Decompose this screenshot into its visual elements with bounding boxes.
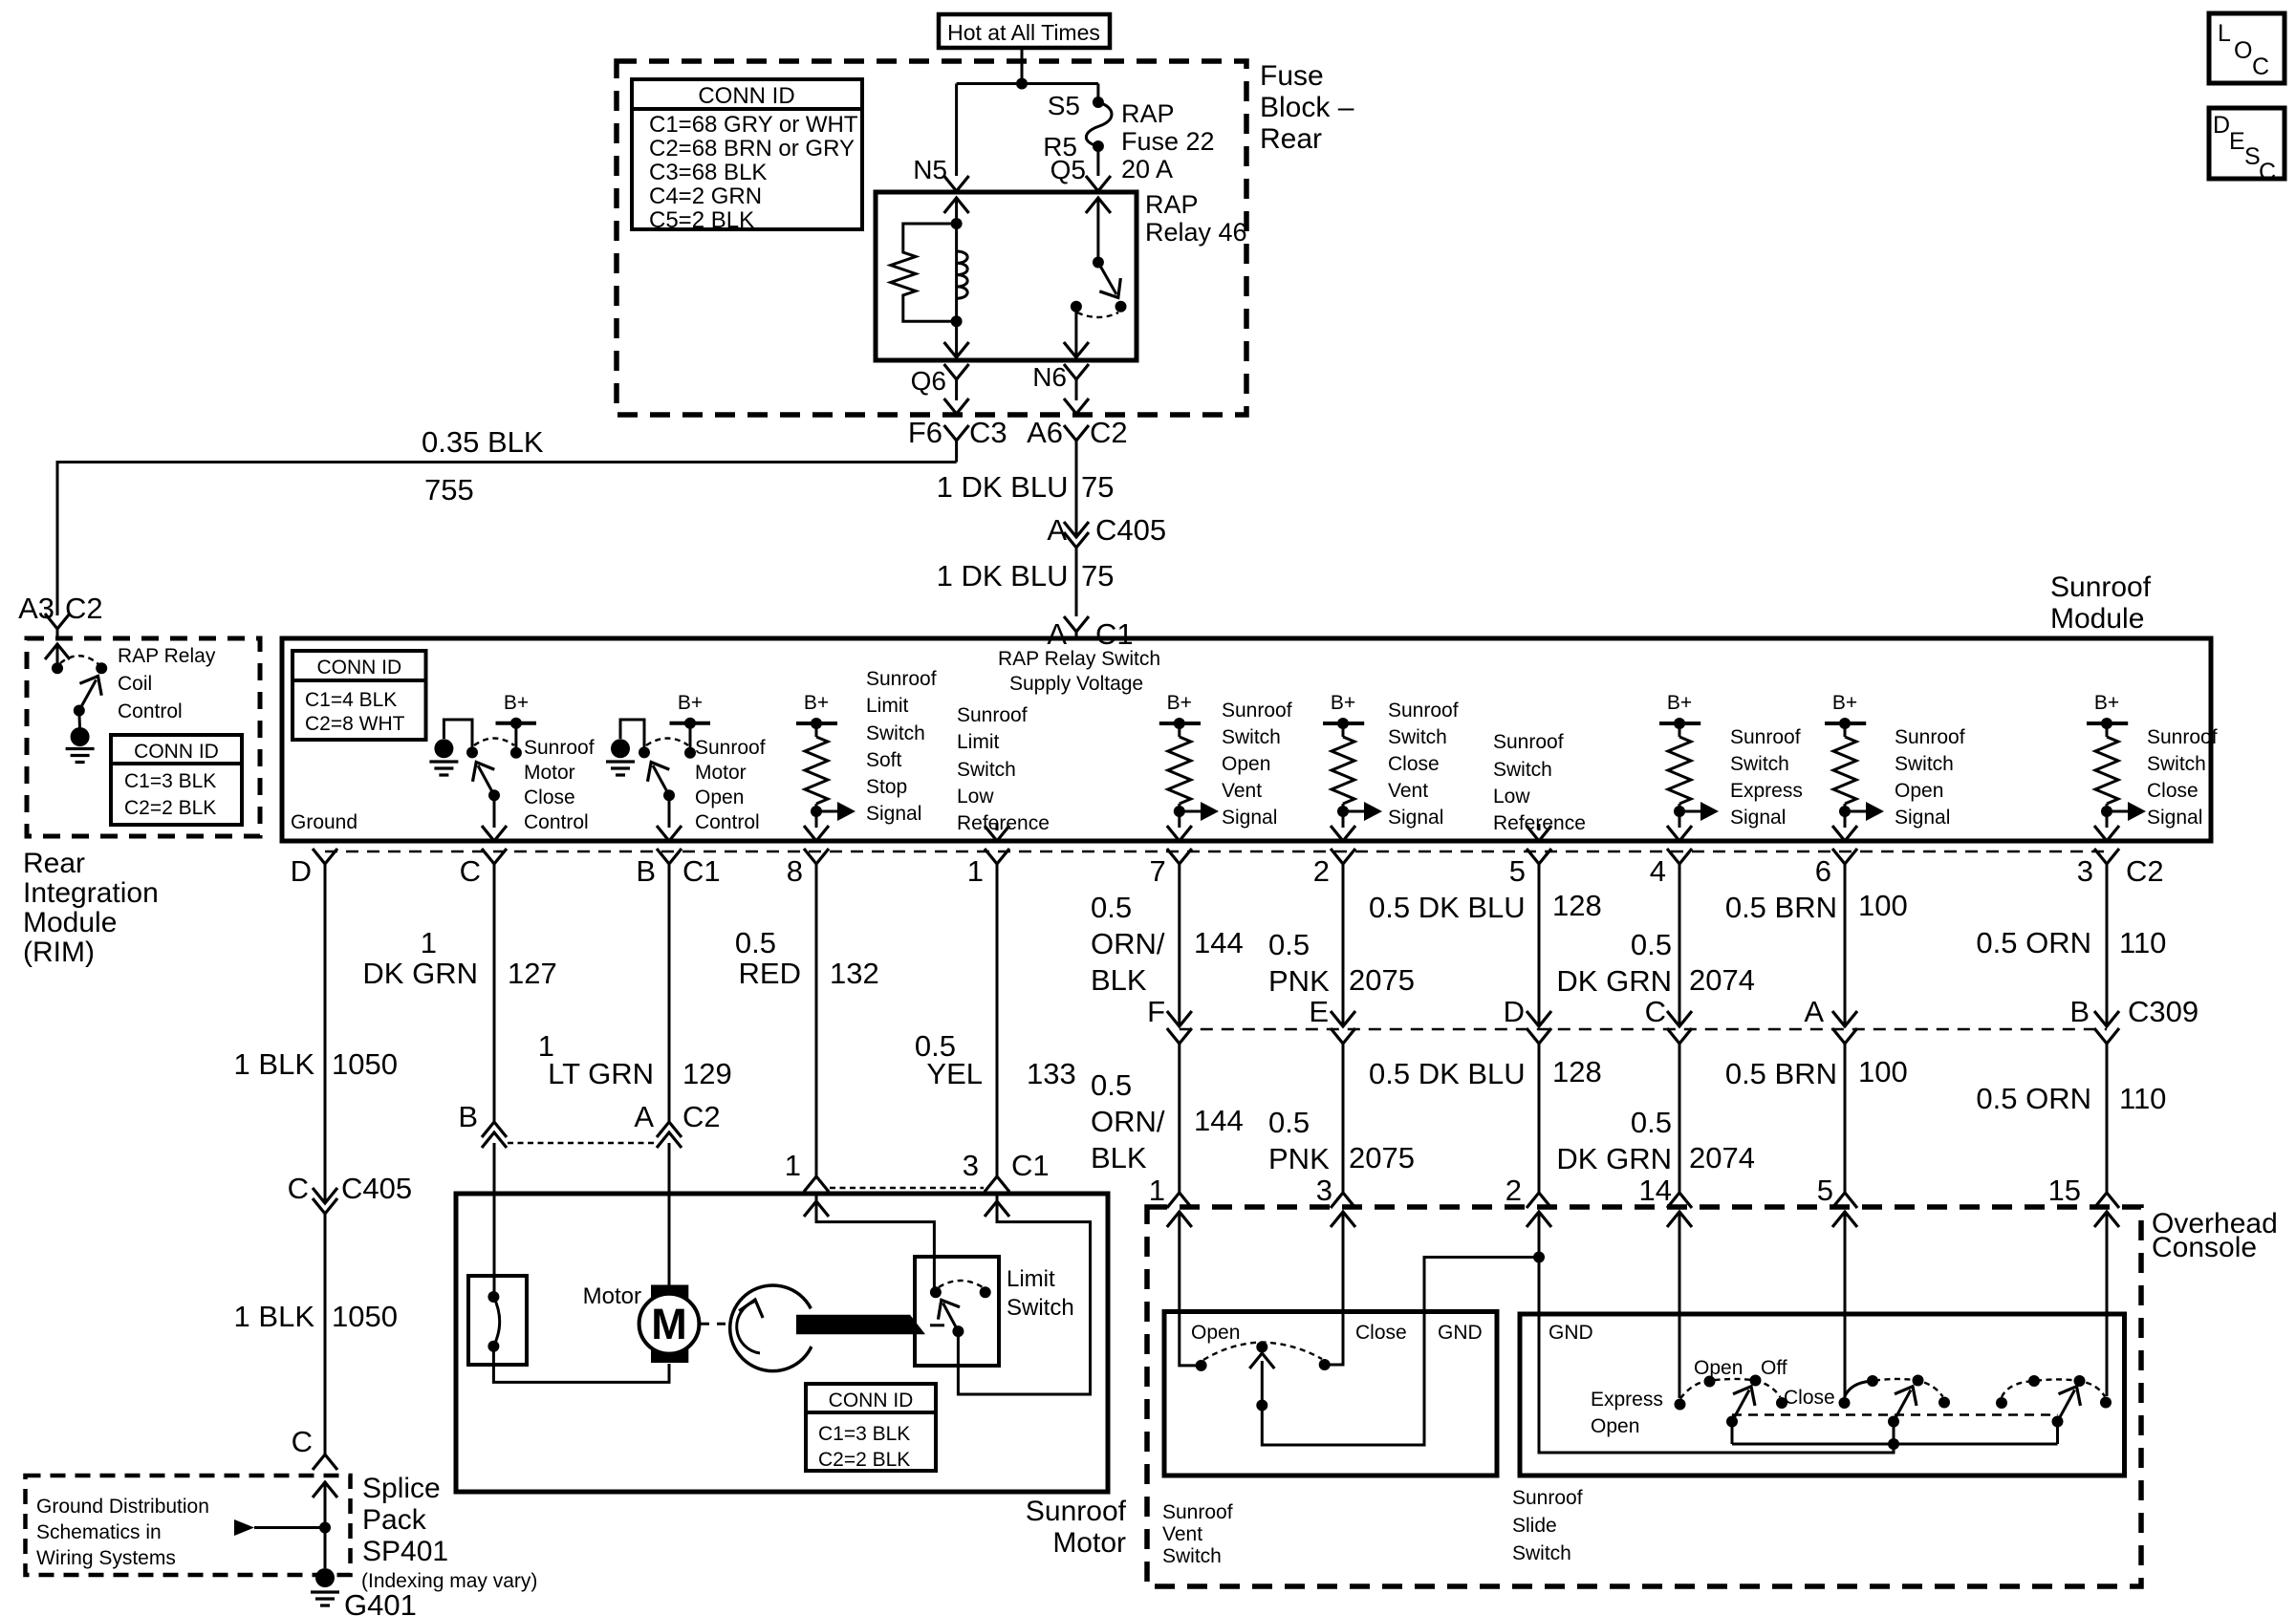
svg-text:6: 6 bbox=[1815, 854, 1831, 888]
svg-text:128: 128 bbox=[1552, 889, 1602, 922]
DESC reference box bbox=[2209, 108, 2285, 185]
motor shaft dashes bbox=[701, 1323, 728, 1325]
svg-text:Sunroof: Sunroof bbox=[866, 668, 937, 690]
brush contacts and arc bbox=[487, 1291, 499, 1352]
svg-text:0.35 BLK: 0.35 BLK bbox=[422, 425, 544, 459]
wire 8 0.5 RED 132 bbox=[735, 864, 879, 1176]
switch close pull-up resistor R3 bbox=[2087, 692, 2146, 841]
dashed throw arc bbox=[646, 739, 688, 746]
svg-text:DK GRN: DK GRN bbox=[1556, 964, 1672, 998]
RAP Relay 46 label bbox=[1145, 190, 1247, 247]
wire 2 0.5 PNK 2075 upper bbox=[1268, 864, 1415, 1026]
connector A6 C2 bbox=[1027, 416, 1128, 449]
relay switch common entry bbox=[1086, 198, 1111, 263]
svg-text:20 A: 20 A bbox=[1121, 155, 1173, 183]
vent close contact bbox=[1319, 1359, 1331, 1370]
svg-text:C3=68 BLK: C3=68 BLK bbox=[649, 160, 767, 185]
svg-text:8: 8 bbox=[787, 854, 803, 888]
limit switch low reference stub pin 1 bbox=[985, 824, 1009, 841]
svg-text:1: 1 bbox=[1149, 1174, 1165, 1207]
svg-text:Close: Close bbox=[2147, 780, 2199, 802]
svg-text:(RIM): (RIM) bbox=[23, 937, 95, 968]
wire 1 DK BLU 75 lower bbox=[937, 559, 1115, 593]
ground distribution reference arrow bbox=[234, 1519, 325, 1536]
svg-text:Open: Open bbox=[1895, 780, 1943, 802]
svg-text:755: 755 bbox=[424, 473, 474, 506]
svg-text:C2: C2 bbox=[65, 592, 103, 625]
slide set2 contacts bbox=[1867, 1375, 1950, 1409]
console pin 15 bbox=[2048, 1174, 2119, 1208]
svg-text:0.5: 0.5 bbox=[1631, 928, 1672, 961]
wire 0.35 BLK 755 bbox=[57, 425, 957, 615]
junction node on pin 2 wire bbox=[1533, 1252, 1545, 1263]
svg-text:Rear: Rear bbox=[23, 848, 85, 879]
motor brush box bbox=[468, 1276, 527, 1365]
svg-text:B+: B+ bbox=[2094, 692, 2119, 714]
svg-text:C1=4 BLK: C1=4 BLK bbox=[305, 689, 397, 711]
svg-text:127: 127 bbox=[508, 957, 557, 990]
svg-text:128: 128 bbox=[1552, 1055, 1602, 1088]
slide set2 left contact bbox=[1839, 1397, 1851, 1409]
pin 4 bbox=[1650, 849, 1692, 888]
svg-text:Off: Off bbox=[1761, 1357, 1787, 1379]
in-line connector A C405 bbox=[1047, 513, 1166, 616]
svg-text:RED: RED bbox=[739, 957, 801, 990]
pin 6 bbox=[1815, 849, 1857, 888]
svg-text:C2: C2 bbox=[1090, 416, 1128, 449]
svg-text:Switch: Switch bbox=[1388, 726, 1447, 748]
slide set1 dashed throw arc bbox=[1680, 1379, 1781, 1399]
switch low reference stub pin 5 bbox=[1527, 824, 1551, 841]
svg-text:7: 7 bbox=[1150, 854, 1166, 888]
Sunroof Module label bbox=[2050, 571, 2152, 635]
svg-text:Open: Open bbox=[1694, 1357, 1743, 1379]
svg-text:Signal: Signal bbox=[2147, 807, 2202, 829]
switch close vent pull-up resistor R2 bbox=[1323, 692, 1382, 841]
dashed throw arc bbox=[474, 739, 514, 746]
svg-text:LT GRN: LT GRN bbox=[548, 1057, 654, 1090]
svg-text:2075: 2075 bbox=[1349, 963, 1415, 997]
wire C 1 DK GRN 127 bbox=[362, 864, 556, 1194]
svg-text:Open: Open bbox=[695, 786, 744, 808]
wire 5 0.5 DK BLU 128 upper bbox=[1369, 864, 1602, 1026]
RIM ground bbox=[66, 711, 95, 763]
svg-text:D: D bbox=[1504, 995, 1525, 1028]
Sunroof Motor box bbox=[456, 1194, 1108, 1492]
Rear Integration Module dashed box bbox=[27, 638, 260, 836]
motor M bbox=[639, 1194, 700, 1363]
wire D ground 1 BLK 1050 bbox=[234, 864, 398, 1203]
sunroof limit switch soft stop signal label bbox=[866, 668, 937, 825]
svg-text:M: M bbox=[651, 1300, 687, 1348]
svg-text:B+: B+ bbox=[1667, 692, 1692, 714]
svg-text:100: 100 bbox=[1858, 889, 1908, 922]
svg-text:E: E bbox=[2229, 128, 2245, 155]
console pin 14 bbox=[1639, 1174, 1692, 1208]
switch arm bbox=[663, 789, 675, 801]
svg-text:C2=8 WHT: C2=8 WHT bbox=[305, 713, 405, 735]
svg-text:Sunroof: Sunroof bbox=[957, 704, 1028, 726]
ground G401 bbox=[311, 1568, 417, 1616]
svg-text:F6: F6 bbox=[908, 416, 942, 449]
Rear Integration Module (RIM) label bbox=[23, 848, 159, 968]
svg-text:1050: 1050 bbox=[332, 1047, 398, 1081]
B+ supply bbox=[496, 722, 537, 725]
CONN ID table (Sunroof Module) bbox=[292, 651, 426, 740]
relay coil output arrow bbox=[944, 321, 969, 357]
ground symbol bbox=[434, 739, 453, 758]
svg-text:1: 1 bbox=[421, 926, 437, 959]
svg-text:0.5 ORN: 0.5 ORN bbox=[1976, 926, 2091, 959]
svg-text:B+: B+ bbox=[504, 692, 529, 714]
svg-text:Signal: Signal bbox=[1730, 807, 1786, 829]
limit switch label bbox=[1007, 1266, 1074, 1321]
svg-text:GND: GND bbox=[1438, 1322, 1483, 1344]
svg-text:Q6: Q6 bbox=[911, 366, 946, 396]
svg-text:Open: Open bbox=[1191, 1322, 1240, 1344]
svg-text:B: B bbox=[636, 854, 656, 888]
svg-text:Signal: Signal bbox=[866, 803, 921, 825]
svg-text:RAP Relay: RAP Relay bbox=[118, 645, 216, 667]
pin 1 bbox=[967, 849, 1009, 888]
svg-text:C: C bbox=[460, 854, 481, 888]
svg-text:Slide: Slide bbox=[1512, 1515, 1557, 1537]
in-line connector B / A C2 bbox=[458, 1100, 720, 1148]
console pin 5 bbox=[1817, 1174, 1857, 1208]
B+ supply bbox=[670, 722, 711, 725]
svg-text:Signal: Signal bbox=[1222, 807, 1277, 829]
limit switch soft stop pull-up resistor R8 bbox=[796, 692, 856, 841]
svg-text:A: A bbox=[634, 1100, 654, 1133]
svg-text:ORN/: ORN/ bbox=[1091, 927, 1165, 960]
svg-text:BLK: BLK bbox=[1091, 963, 1147, 997]
vent GND rail to slide switch bbox=[1262, 1258, 1539, 1446]
svg-text:Limit: Limit bbox=[866, 695, 909, 717]
svg-text:0.5 DK BLU: 0.5 DK BLU bbox=[1369, 891, 1526, 924]
CONN ID table (Fuse Block) bbox=[632, 79, 862, 233]
relay coil inductor bbox=[957, 224, 968, 321]
svg-text:0.5 ORN: 0.5 ORN bbox=[1976, 1082, 2091, 1115]
svg-text:C2: C2 bbox=[682, 1100, 721, 1133]
in-line connector C309 row bbox=[1167, 1011, 2119, 1044]
svg-text:A6: A6 bbox=[1027, 416, 1063, 449]
svg-text:0.5: 0.5 bbox=[1268, 928, 1310, 961]
svg-text:Splice: Splice bbox=[362, 1473, 441, 1504]
svg-text:F: F bbox=[1147, 995, 1165, 1028]
vent open feed wire bbox=[1180, 1212, 1196, 1366]
vent switch arm bbox=[1249, 1353, 1274, 1411]
fuse name label bbox=[1121, 99, 1215, 183]
svg-text:1050: 1050 bbox=[332, 1300, 398, 1333]
svg-text:132: 132 bbox=[830, 957, 879, 990]
wire 0.5 PNK 2075 lower bbox=[1268, 1044, 1415, 1193]
slide set2 dashed throw arc bbox=[1874, 1379, 1943, 1397]
connector A3 C2 into RIM bbox=[18, 592, 103, 638]
fuse F22 RAP Fuse 22 20A bbox=[1086, 97, 1112, 176]
svg-text:Fuse: Fuse bbox=[1260, 60, 1324, 92]
svg-text:YEL: YEL bbox=[926, 1057, 983, 1090]
wire 0.5 DK BLU 128 lower bbox=[1369, 1044, 1602, 1193]
svg-text:C: C bbox=[288, 1172, 309, 1205]
svg-text:C1=3 BLK: C1=3 BLK bbox=[818, 1423, 910, 1445]
svg-text:75: 75 bbox=[1081, 470, 1114, 504]
pin 14 express feed bbox=[1679, 1212, 1681, 1398]
svg-text:GND: GND bbox=[1549, 1322, 1593, 1344]
svg-text:C: C bbox=[2259, 159, 2276, 185]
svg-text:SP401: SP401 bbox=[362, 1536, 448, 1567]
switch open pull-up resistor R6 bbox=[1825, 692, 1884, 841]
svg-text:4: 4 bbox=[1650, 854, 1666, 888]
svg-text:C5=2 BLK: C5=2 BLK bbox=[649, 207, 754, 233]
wire bbox=[444, 720, 472, 752]
svg-text:Control: Control bbox=[118, 700, 183, 722]
bar link dash bbox=[930, 1324, 944, 1326]
svg-text:Wiring Systems: Wiring Systems bbox=[36, 1547, 176, 1569]
svg-text:129: 129 bbox=[682, 1057, 732, 1090]
svg-text:3: 3 bbox=[963, 1149, 979, 1182]
svg-text:Switch: Switch bbox=[1895, 753, 1954, 775]
relay coil pin entry arrow bbox=[944, 198, 969, 224]
svg-text:Signal: Signal bbox=[1388, 807, 1443, 829]
svg-text:Low: Low bbox=[1493, 786, 1530, 808]
svg-text:C: C bbox=[1645, 995, 1666, 1028]
svg-text:2: 2 bbox=[1313, 854, 1330, 888]
slide position labels bbox=[1591, 1357, 1835, 1437]
pin B C1 bbox=[636, 849, 720, 888]
RIM switch contact left bbox=[52, 662, 63, 674]
pin Q5 connector fork bbox=[1086, 176, 1111, 191]
svg-text:C2=68 BRN or GRY: C2=68 BRN or GRY bbox=[649, 136, 855, 162]
svg-text:E: E bbox=[1309, 995, 1329, 1028]
svg-text:Coil: Coil bbox=[118, 673, 152, 695]
svg-text:C1: C1 bbox=[682, 854, 721, 888]
svg-text:Sunroof: Sunroof bbox=[2050, 571, 2152, 603]
motor pin 3 entry bbox=[958, 1194, 1090, 1394]
pin Q6 bbox=[911, 364, 969, 414]
svg-text:D: D bbox=[291, 854, 312, 888]
svg-text:14: 14 bbox=[1639, 1174, 1672, 1207]
svg-text:0.5 BRN: 0.5 BRN bbox=[1725, 891, 1837, 924]
pin N6 bbox=[1032, 362, 1089, 414]
relay coil junction bottom bbox=[951, 315, 963, 327]
svg-text:DK GRN: DK GRN bbox=[1556, 1142, 1672, 1175]
contact node bbox=[466, 746, 478, 758]
svg-text:Integration: Integration bbox=[23, 877, 159, 909]
svg-text:Switch: Switch bbox=[1512, 1542, 1571, 1564]
svg-text:C1=3 BLK: C1=3 BLK bbox=[124, 770, 216, 792]
rail junction node bbox=[1888, 1438, 1899, 1450]
console pin 1 bbox=[1149, 1174, 1192, 1208]
svg-text:75: 75 bbox=[1081, 559, 1114, 593]
vent open contact bbox=[1196, 1360, 1207, 1371]
svg-text:Module: Module bbox=[23, 907, 117, 938]
svg-text:DK GRN: DK GRN bbox=[362, 957, 478, 990]
vent close feed wire bbox=[1330, 1212, 1343, 1365]
svg-text:Hot at All Times: Hot at All Times bbox=[947, 20, 1100, 45]
svg-text:144: 144 bbox=[1194, 1104, 1244, 1137]
Fuse Block - Rear dashed box bbox=[617, 61, 1246, 415]
svg-text:B+: B+ bbox=[678, 692, 703, 714]
slide set3 dashed throw arc bbox=[2002, 1379, 2105, 1397]
svg-text:Signal: Signal bbox=[1895, 807, 1950, 829]
svg-text:Sunroof: Sunroof bbox=[1512, 1487, 1583, 1509]
svg-text:0.5 DK BLU: 0.5 DK BLU bbox=[1369, 1057, 1526, 1090]
vent labels bbox=[1191, 1322, 1483, 1344]
svg-text:Sunroof: Sunroof bbox=[1162, 1501, 1233, 1523]
RIM switch arm bbox=[74, 670, 109, 716]
relay switch output arrow bbox=[1064, 312, 1089, 357]
svg-text:CONN ID: CONN ID bbox=[134, 741, 219, 763]
RIM switch dashed throw arc bbox=[60, 656, 98, 664]
Sunroof Motor label bbox=[1026, 1496, 1127, 1559]
pin C bbox=[460, 849, 507, 888]
svg-text:0.5: 0.5 bbox=[1091, 1068, 1132, 1102]
sunroof switch close vent signal label bbox=[1388, 700, 1459, 829]
sunroof switch low reference label bbox=[1493, 731, 1586, 834]
svg-text:1: 1 bbox=[785, 1149, 801, 1182]
svg-text:Switch: Switch bbox=[1007, 1295, 1074, 1321]
wire bbox=[620, 720, 644, 752]
relay switch dashed throw arc bbox=[1077, 312, 1118, 317]
svg-text:C1: C1 bbox=[1011, 1149, 1050, 1182]
svg-text:1 DK BLU: 1 DK BLU bbox=[937, 470, 1069, 504]
Hot at All Times box bbox=[939, 14, 1110, 48]
RIM switch contact right bbox=[96, 662, 107, 674]
svg-text:2074: 2074 bbox=[1689, 1141, 1755, 1174]
sunroof motor close control driver bbox=[429, 692, 536, 841]
svg-text:B: B bbox=[2069, 995, 2090, 1028]
wire 3 0.5 ORN 110 upper bbox=[1976, 864, 2166, 1026]
splice pack label bbox=[361, 1473, 537, 1592]
slide set2 arm bbox=[1888, 1381, 1923, 1428]
svg-text:B+: B+ bbox=[1832, 692, 1857, 714]
sunroof motor open control label bbox=[695, 737, 766, 833]
slide arm common rail bbox=[1732, 1422, 2058, 1445]
svg-text:Motor: Motor bbox=[524, 762, 575, 784]
wire 0.5 BRN 100 lower bbox=[1725, 1044, 1908, 1193]
RAP Relay Coil Control label bbox=[118, 645, 216, 722]
svg-text:RAP Relay Switch: RAP Relay Switch bbox=[998, 648, 1160, 670]
svg-text:L: L bbox=[2218, 20, 2231, 47]
wire 0.5 DK GRN 2074 lower bbox=[1556, 1044, 1755, 1193]
express open contact bbox=[1675, 1399, 1686, 1411]
splice junction node bbox=[319, 1522, 331, 1534]
svg-text:G401: G401 bbox=[344, 1588, 417, 1616]
wire 1 DK BLU 75 upper bbox=[937, 441, 1115, 537]
wire from Hot at All Times bbox=[957, 48, 1098, 176]
splice pack entry arrow bbox=[313, 1482, 337, 1568]
wire B 1 LT GRN 129 bbox=[538, 864, 732, 1194]
connector C at splice pack bbox=[292, 1425, 337, 1470]
svg-text:C309: C309 bbox=[2128, 995, 2199, 1028]
svg-text:Limit: Limit bbox=[957, 731, 1000, 753]
svg-text:Ground: Ground bbox=[291, 811, 357, 833]
output wire pin B bbox=[668, 795, 671, 828]
relay switch arm bbox=[1093, 257, 1129, 305]
svg-text:Sunroof: Sunroof bbox=[2147, 726, 2218, 748]
Fuse Block - Rear label bbox=[1260, 60, 1354, 155]
svg-text:C2=2 BLK: C2=2 BLK bbox=[124, 797, 216, 819]
contact node bbox=[639, 746, 650, 758]
svg-text:Express: Express bbox=[1591, 1389, 1663, 1411]
svg-text:N6: N6 bbox=[1032, 362, 1067, 392]
svg-text:2075: 2075 bbox=[1349, 1141, 1415, 1174]
svg-text:Close: Close bbox=[524, 786, 575, 808]
svg-text:Module: Module bbox=[2050, 603, 2144, 635]
svg-text:2074: 2074 bbox=[1689, 963, 1755, 997]
svg-text:Sunroof: Sunroof bbox=[1388, 700, 1459, 722]
svg-text:0.5: 0.5 bbox=[1268, 1106, 1310, 1139]
svg-text:Close: Close bbox=[1784, 1387, 1835, 1409]
svg-text:Vent: Vent bbox=[1222, 780, 1262, 802]
svg-text:C405: C405 bbox=[1095, 513, 1166, 547]
svg-text:15: 15 bbox=[2048, 1174, 2081, 1207]
svg-text:Express: Express bbox=[1730, 780, 1803, 802]
svg-text:Switch: Switch bbox=[2147, 753, 2206, 775]
svg-text:Vent: Vent bbox=[1162, 1523, 1202, 1545]
svg-text:B+: B+ bbox=[1167, 692, 1192, 714]
svg-text:Switch: Switch bbox=[1730, 753, 1789, 775]
svg-text:110: 110 bbox=[2119, 926, 2166, 959]
Sunroof Vent Switch label bbox=[1162, 1501, 1233, 1567]
motor pin 1 entry bbox=[804, 1194, 934, 1292]
svg-text:Close: Close bbox=[1355, 1322, 1407, 1344]
RAP Relay 46 box bbox=[876, 192, 1137, 360]
svg-text:1 BLK: 1 BLK bbox=[234, 1300, 315, 1333]
wire 4 0.5 DK GRN 2074 upper bbox=[1556, 864, 1755, 1026]
svg-text:Stop: Stop bbox=[866, 776, 907, 798]
svg-text:Motor: Motor bbox=[695, 762, 747, 784]
sunroof switch open vent signal label bbox=[1222, 700, 1292, 829]
in-line connector C C405 bbox=[288, 1172, 413, 1214]
ground symbol bbox=[611, 739, 630, 758]
svg-text:Pack: Pack bbox=[362, 1504, 427, 1536]
svg-text:Console: Console bbox=[2152, 1232, 2257, 1263]
svg-text:Switch: Switch bbox=[1222, 726, 1281, 748]
svg-text:Low: Low bbox=[957, 786, 994, 808]
svg-text:144: 144 bbox=[1194, 926, 1244, 959]
Overhead Console dashed box bbox=[1147, 1207, 2141, 1586]
svg-text:5: 5 bbox=[1817, 1174, 1833, 1207]
svg-text:A: A bbox=[1047, 513, 1067, 547]
svg-text:CONN ID: CONN ID bbox=[698, 83, 794, 109]
svg-text:Sunroof: Sunroof bbox=[524, 737, 595, 759]
switch open vent pull-up resistor R7 bbox=[1159, 692, 1219, 841]
limit switch box bbox=[915, 1257, 999, 1366]
sunroof switch close signal label bbox=[2147, 726, 2218, 829]
svg-text:Reference: Reference bbox=[957, 812, 1050, 834]
svg-text:CONN ID: CONN ID bbox=[316, 657, 401, 679]
console pin 3 bbox=[1316, 1174, 1355, 1208]
slide set3 arm bbox=[2052, 1381, 2088, 1428]
junction node bbox=[1016, 78, 1028, 90]
pin 5 bbox=[1509, 849, 1551, 888]
pin 7 bbox=[1150, 849, 1192, 888]
console pin 2 bbox=[1505, 1174, 1551, 1208]
RIM entry arrow bbox=[45, 644, 70, 667]
svg-text:Open: Open bbox=[1222, 753, 1270, 775]
svg-text:100: 100 bbox=[1858, 1055, 1908, 1088]
sunroof switch express signal label bbox=[1730, 726, 1803, 829]
svg-text:C3: C3 bbox=[969, 416, 1007, 449]
svg-text:1 BLK: 1 BLK bbox=[234, 1047, 315, 1081]
wire 1 BLK 1050 lower bbox=[234, 1214, 398, 1454]
svg-text:Q5: Q5 bbox=[1051, 155, 1086, 184]
svg-text:A: A bbox=[1804, 995, 1824, 1028]
limit switch contacts bbox=[930, 1286, 942, 1298]
svg-text:BLK: BLK bbox=[1091, 1141, 1147, 1174]
svg-text:B+: B+ bbox=[804, 692, 829, 714]
